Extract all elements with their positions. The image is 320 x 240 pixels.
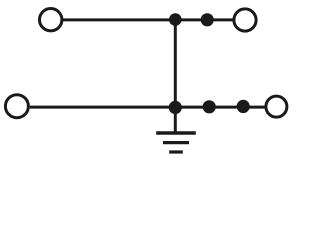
contact dot: upper rail [201,13,214,26]
terminal circle lower-right [266,96,287,117]
junction dot: upper rail / vertical link [169,13,182,26]
junction dot: lower rail / vertical link [169,101,182,114]
wire: lower rail [30,106,265,109]
contact dot: lower rail right [237,100,250,113]
ground [156,133,196,152]
contact dot: lower rail left [203,100,216,113]
wire: upper rail [63,18,233,21]
terminal circle lower-left [5,95,28,118]
terminal circle upper-right [234,9,256,31]
terminal circle upper-left [40,9,62,31]
wire: vertical link from upper rail to ground [174,20,177,133]
